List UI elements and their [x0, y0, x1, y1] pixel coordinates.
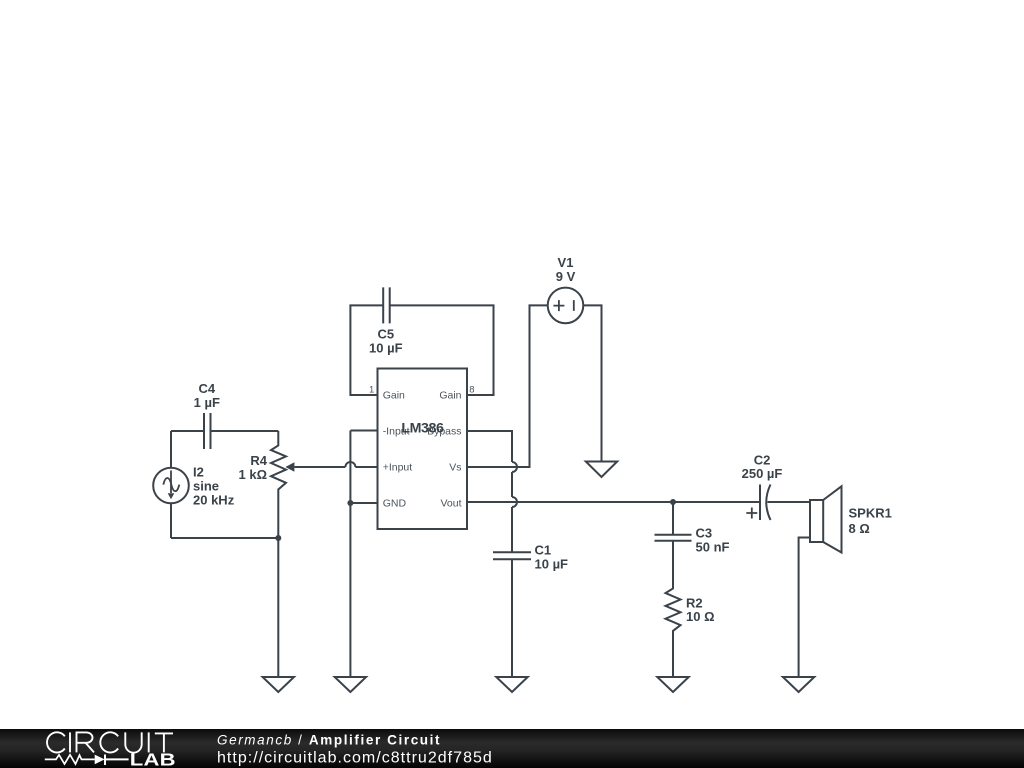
svg-text:250 µF: 250 µF — [742, 466, 783, 481]
svg-text:LM386: LM386 — [401, 420, 444, 436]
svg-text:Gain: Gain — [439, 390, 461, 402]
svg-text:SPKR1: SPKR1 — [849, 506, 892, 521]
svg-text:LAB: LAB — [130, 750, 176, 768]
svg-text:10 µF: 10 µF — [535, 557, 569, 572]
svg-text:C3: C3 — [696, 526, 713, 541]
svg-text:I2: I2 — [193, 465, 204, 480]
svg-text:R4: R4 — [250, 453, 267, 468]
svg-text:9 V: 9 V — [556, 269, 576, 284]
svg-text:GND: GND — [383, 498, 407, 510]
svg-text:+Input: +Input — [383, 462, 413, 474]
svg-text:50 nF: 50 nF — [696, 540, 730, 555]
svg-text:1 kΩ: 1 kΩ — [239, 467, 268, 482]
svg-text:1 µF: 1 µF — [194, 395, 220, 410]
svg-text:C1: C1 — [535, 543, 552, 558]
svg-text:sine: sine — [193, 479, 219, 494]
svg-text:10 µF: 10 µF — [369, 341, 403, 356]
svg-text:1: 1 — [369, 385, 374, 396]
svg-text:8 Ω: 8 Ω — [849, 521, 870, 536]
svg-text:8: 8 — [469, 385, 474, 396]
svg-text:20 kHz: 20 kHz — [193, 493, 235, 508]
svg-text:V1: V1 — [558, 255, 574, 270]
svg-text:Vout: Vout — [440, 498, 461, 510]
svg-text:http://circuitlab.com/c8ttru2d: http://circuitlab.com/c8ttru2df785d — [217, 749, 493, 766]
svg-text:Gain: Gain — [383, 390, 405, 402]
svg-text:Germancb / Amplifier Circuit: Germancb / Amplifier Circuit — [217, 733, 441, 748]
svg-text:Vs: Vs — [449, 462, 461, 474]
svg-text:C4: C4 — [198, 381, 215, 396]
svg-text:C5: C5 — [377, 327, 394, 342]
svg-text:10 Ω: 10 Ω — [686, 609, 715, 624]
